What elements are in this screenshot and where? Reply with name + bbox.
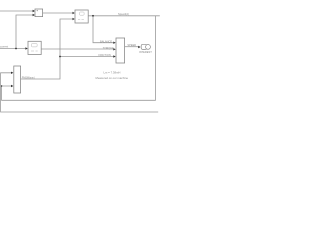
plant block D (PMSM) bbox=[14, 66, 21, 93]
load block E bbox=[116, 38, 125, 63]
mux block A bbox=[35, 9, 43, 17]
wire bbox=[0, 48, 26, 50]
wire bbox=[16, 15, 34, 49]
svg-text:FRICTION: FRICTION bbox=[99, 53, 111, 57]
arrowhead into scope F bbox=[138, 46, 140, 48]
svg-text:BALANCE: BALANCE bbox=[100, 39, 112, 43]
controller block U2 bbox=[75, 10, 88, 23]
svg-text:Speed(A): Speed(A) bbox=[118, 12, 129, 16]
arrowhead into plant D input1 bbox=[11, 72, 13, 74]
svg-text:current: current bbox=[0, 44, 8, 48]
svg-text:SPEED: SPEED bbox=[127, 43, 136, 47]
junction dot bbox=[59, 56, 61, 58]
wire bbox=[60, 56, 114, 58]
scope block F bbox=[141, 44, 150, 49]
arrowhead into controller U2 bbox=[72, 12, 74, 14]
wire bbox=[41, 48, 114, 50]
arrowhead into plant D input2 bbox=[11, 85, 13, 87]
svg-text:Lm = 7.38mH: Lm = 7.38mH bbox=[104, 71, 121, 75]
arrowhead into load block input2 bbox=[113, 48, 115, 50]
arrowhead into load block input1 bbox=[113, 42, 115, 44]
junction dot bbox=[15, 48, 17, 50]
svg-text:Measured on our machine: Measured on our machine bbox=[96, 76, 129, 80]
svg-text:INTEREST: INTEREST bbox=[139, 50, 152, 54]
svg-text:TORQUE: TORQUE bbox=[103, 46, 114, 50]
junction dot bbox=[92, 15, 94, 17]
wire bbox=[2, 16, 156, 101]
wire bbox=[43, 12, 72, 14]
arrowhead into load block input3 bbox=[113, 55, 115, 57]
arrowhead into mux block bbox=[33, 10, 35, 12]
wire bbox=[88, 15, 160, 17]
arrowhead into mux block lower bbox=[33, 14, 35, 16]
wire bbox=[1, 73, 159, 112]
svg-text:PMSM(rpm): PMSM(rpm) bbox=[22, 77, 35, 80]
arrowhead into converter U3 bbox=[25, 47, 27, 49]
arrowhead into controller U2 lower bbox=[72, 18, 74, 20]
wire bbox=[125, 46, 139, 48]
wire bbox=[93, 16, 114, 43]
converter block U3 bbox=[28, 41, 41, 54]
wire bbox=[0, 10, 34, 12]
junction dot bbox=[1, 85, 2, 86]
wire bbox=[21, 19, 72, 79]
